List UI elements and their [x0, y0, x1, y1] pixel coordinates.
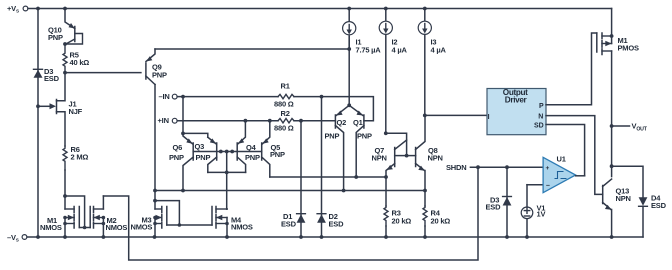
- node +IN terminal: [158, 116, 178, 125]
- diode D4 ESD: [639, 194, 667, 238]
- wire SD pin to U1 output: [546, 125, 585, 176]
- svg-text:7.75 µA: 7.75 µA: [356, 46, 382, 55]
- transistor M1 NMOS (diode-connected): [40, 194, 79, 237]
- wire M2 drain to below-rail loop to SHDN: [103, 167, 478, 260]
- svg-text:R1: R1: [281, 82, 290, 91]
- svg-text:PMOS: PMOS: [618, 44, 639, 53]
- node VOUT: [610, 122, 648, 133]
- node dots on -IN line: [181, 95, 185, 99]
- wire -VS bottom rail: [27, 236, 643, 238]
- wire P pin to M1 PMOS gate: [546, 33, 597, 105]
- svg-text:R2: R2: [281, 109, 290, 118]
- wire -IN line right of R1 to Q1 base loop: [294, 97, 373, 121]
- svg-text:–IN: –IN: [159, 92, 170, 101]
- svg-text:40 kΩ: 40 kΩ: [70, 58, 90, 67]
- svg-text:4 µA: 4 µA: [392, 46, 408, 55]
- svg-text:2 MΩ: 2 MΩ: [71, 153, 89, 162]
- svg-text:NPN: NPN: [616, 194, 631, 203]
- svg-text:PNP: PNP: [357, 132, 372, 141]
- svg-text:NMOS: NMOS: [106, 223, 128, 232]
- node base bus dots: [219, 150, 223, 154]
- svg-text:P: P: [539, 103, 544, 110]
- svg-text:SD: SD: [534, 123, 544, 130]
- svg-text:NMOS: NMOS: [131, 223, 153, 232]
- svg-text:880 Ω: 880 Ω: [274, 124, 294, 133]
- current source I3 4uA: [418, 9, 446, 55]
- transistor Q1 PNP: [349, 105, 372, 177]
- wire R6 to M1 drain: [64, 170, 66, 196]
- wire left rail x=38: [37, 9, 39, 238]
- svg-text:PNP: PNP: [48, 33, 63, 42]
- node J1 gate junction: [36, 104, 40, 108]
- source V1 1V: [521, 185, 545, 237]
- wire clamp base bus: [193, 151, 262, 153]
- wire I3 vertical and I pin line: [424, 35, 426, 116]
- svg-text:PNP: PNP: [325, 132, 340, 141]
- transistor J1 NJF: [38, 73, 83, 146]
- svg-text:ESD: ESD: [44, 74, 60, 83]
- transistor Q4 PNP: [237, 121, 260, 173]
- wire +VS top rail: [28, 8, 612, 10]
- svg-text:880 Ω: 880 Ω: [274, 100, 294, 109]
- resistor R1 880: [274, 82, 294, 109]
- wire Q9 base line: [65, 72, 141, 74]
- transistor Q6 PNP: [169, 133, 193, 190]
- wire M1 drain-gate tie and M1/M2 gate bus: [65, 196, 85, 228]
- wire clamp center vertical to M4 drain: [226, 152, 228, 210]
- block U: Output Driver: [487, 88, 546, 135]
- wire +IN line: [177, 120, 278, 122]
- wire -IN vertical to Q6/Q3 emitters: [183, 97, 208, 138]
- resistor R4 20k: [423, 191, 450, 238]
- transistor M3 NMOS (diode-connected): [131, 207, 167, 238]
- transistor M2 NMOS: [90, 196, 127, 237]
- svg-text:NPN: NPN: [372, 154, 387, 163]
- svg-text:+: +: [546, 165, 550, 172]
- svg-text:1V: 1V: [537, 210, 546, 219]
- svg-text:PNP: PNP: [196, 153, 211, 162]
- current source I2 4uA: [379, 9, 407, 55]
- transistor Q5 PNP: [262, 121, 285, 177]
- svg-text:SHDN: SHDN: [446, 163, 466, 172]
- wire M1 PMOS drain / output vertical: [611, 51, 613, 177]
- svg-text:20 kΩ: 20 kΩ: [392, 217, 412, 226]
- svg-text:ESD: ESD: [651, 201, 667, 210]
- wire V1 to U1 - input: [527, 184, 543, 186]
- transistor Q10 (diode-connected PNP): [48, 9, 83, 46]
- wire +IN line right of R2 to Q2 base: [294, 120, 335, 122]
- node junction dots on +VS rail: [36, 7, 427, 11]
- transistor Q7 NPN (diode-connected): [372, 140, 407, 177]
- svg-text:–: –: [546, 183, 550, 190]
- transistor Q9 PNP: [146, 49, 167, 85]
- wire M3 drain-gate tie: [155, 201, 179, 225]
- node dots on +IN line: [244, 119, 248, 123]
- svg-text:Q1: Q1: [353, 118, 363, 127]
- svg-text:4 µA: 4 µA: [431, 46, 447, 55]
- svg-text:+IN: +IN: [158, 116, 169, 125]
- svg-text:U1: U1: [557, 155, 566, 164]
- resistor R6 2M: [63, 145, 88, 170]
- node -VS terminal: [7, 233, 27, 243]
- wire D4 branch: [610, 164, 614, 168]
- svg-text:Q4: Q4: [246, 143, 257, 152]
- svg-text:ESD: ESD: [329, 220, 345, 229]
- svg-text:PNP: PNP: [245, 153, 260, 162]
- op-amp U1 (comparator): [543, 155, 576, 193]
- wire I1 tail vertical: [348, 36, 350, 105]
- wire U1 output to SD junction: [576, 175, 585, 177]
- wire Q9 emitter to I1: [155, 48, 349, 50]
- diode D3 ESD (shutdown clamp): [486, 167, 512, 237]
- svg-text:N: N: [538, 114, 543, 121]
- node +VS terminal: [7, 4, 28, 14]
- wire SHDN line to U1 + input: [470, 166, 543, 168]
- current source I1 7.75uA: [343, 9, 382, 55]
- resistor R3 20k: [384, 177, 411, 237]
- transistor M1 PMOS: [597, 9, 639, 55]
- wire row B (Q9/M3 node to R4 top): [155, 190, 425, 192]
- wire M3/M4 gate bus: [167, 224, 212, 226]
- svg-text:Q6: Q6: [173, 143, 183, 152]
- diode D1 ESD: [281, 121, 305, 237]
- wire -IN line: [177, 96, 278, 98]
- wire Q9 collector / M3 column: [154, 85, 156, 210]
- resistor R2 880: [274, 109, 294, 132]
- node junction dots on -VS rail: [36, 235, 613, 239]
- diode D2 ESD: [317, 97, 344, 237]
- transistor Q3 PNP: [195, 137, 217, 172]
- svg-text:PNP: PNP: [169, 153, 184, 162]
- diode D3 (left ESD on rail): [34, 67, 60, 83]
- svg-text:NPN: NPN: [428, 154, 443, 163]
- wire Q8 base: [407, 155, 416, 157]
- svg-text:PNP: PNP: [270, 150, 285, 159]
- node -IN terminal: [159, 92, 178, 101]
- svg-text:PNP: PNP: [152, 71, 167, 80]
- svg-text:NMOS: NMOS: [231, 223, 253, 232]
- transistor Q13 NPN: [603, 179, 631, 237]
- svg-text:ESD: ESD: [281, 220, 297, 229]
- wire row A (Q5/Q1 collectors to R3 top): [270, 176, 386, 178]
- resistor R5 40k: [63, 44, 89, 75]
- svg-text:Driver: Driver: [505, 95, 528, 104]
- svg-text:ESD: ESD: [486, 203, 502, 212]
- wire N pin to Q13 base: [546, 116, 603, 195]
- svg-text:20 kΩ: 20 kΩ: [431, 217, 451, 226]
- wire clamp collector bus: [208, 171, 246, 173]
- transistor M4 NMOS: [212, 207, 253, 238]
- transistor Q8 NPN: [416, 115, 443, 190]
- wire I2 vertical to Q7 collector node: [385, 35, 387, 134]
- transistor Q2 PNP: [325, 105, 350, 190]
- svg-text:Q2: Q2: [337, 118, 347, 127]
- svg-text:NJF: NJF: [69, 107, 83, 116]
- svg-text:I: I: [488, 114, 490, 121]
- svg-text:NMOS: NMOS: [40, 223, 62, 232]
- svg-text:Q3: Q3: [195, 142, 205, 151]
